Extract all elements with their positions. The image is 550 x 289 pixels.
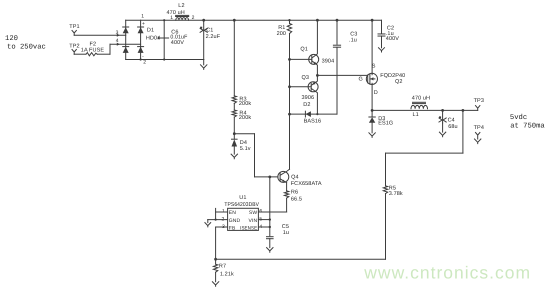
svg-text:G: G <box>359 77 363 83</box>
node drain output junction <box>371 109 374 112</box>
ground under TP4 <box>475 139 481 144</box>
capacitor C5 plates <box>267 236 274 238</box>
test point TP1 probe <box>72 30 76 35</box>
node D2 anode junction <box>288 113 291 116</box>
transistor Q1 circle <box>309 54 319 64</box>
svg-text:200: 200 <box>277 31 286 37</box>
wire R1 down to D2 row <box>289 34 291 115</box>
bridge D1 left column wire <box>125 20 127 59</box>
wire EN to GND tie <box>215 208 217 219</box>
wire D2 row down to Q4 collector <box>289 114 291 169</box>
node feedback junction <box>462 109 465 112</box>
bridge pin 4 arrow <box>117 43 120 46</box>
wire feedback bottom row <box>216 258 386 260</box>
capacitor C1 wire <box>203 20 205 59</box>
wire to bridge pin4 <box>110 43 141 45</box>
ic U1 body <box>228 208 259 230</box>
transistor Q1 emitter arrow <box>314 62 317 65</box>
svg-text:2: 2 <box>143 59 146 65</box>
svg-text:C4: C4 <box>448 117 455 123</box>
ground at U1 GND <box>207 220 209 223</box>
wire feedback down <box>462 110 464 153</box>
node VIN junction <box>269 218 271 220</box>
node C4 junction <box>441 109 444 112</box>
svg-text:BAS16: BAS16 <box>304 119 322 125</box>
zener D4 <box>232 138 238 140</box>
mosfet Q2 drain wire <box>371 85 373 111</box>
capacitor C2 plates <box>378 33 385 35</box>
node ISENSE junction <box>269 226 271 228</box>
svg-text:6: 6 <box>259 208 262 214</box>
bridge D1 diode right-bottom <box>138 46 144 48</box>
svg-text:Q2: Q2 <box>395 79 403 85</box>
svg-text:3: 3 <box>116 30 119 36</box>
wire corner up <box>109 44 111 54</box>
node Q3 base junction <box>288 85 291 88</box>
svg-text:1: 1 <box>141 14 144 20</box>
resistor R6 <box>284 191 288 198</box>
transistor Q1 base wire <box>290 58 312 60</box>
svg-text:470 uH: 470 uH <box>412 96 430 102</box>
node Q1 base junction <box>288 58 291 61</box>
transistor Q3 circle <box>308 82 318 92</box>
svg-text:200k: 200k <box>239 115 251 121</box>
svg-text:Q3: Q3 <box>302 75 310 81</box>
svg-text:FCX658ATA: FCX658ATA <box>291 181 322 187</box>
resistor R3 <box>232 96 236 104</box>
resistor R7 <box>213 264 217 272</box>
svg-text:D4: D4 <box>240 140 247 146</box>
capacitor C3 plates <box>333 44 340 46</box>
wire top rail to R1 <box>289 20 291 23</box>
transistor Q4 collector <box>280 169 289 175</box>
svg-text:TP2: TP2 <box>69 43 79 49</box>
transistor Q3 base wire <box>290 86 312 88</box>
transistor Q3 collector <box>311 88 317 114</box>
bridge D1 right column wire <box>140 20 142 59</box>
svg-text:400V: 400V <box>386 36 399 42</box>
svg-text:1: 1 <box>222 208 225 214</box>
diode D2 BAS16 <box>304 111 306 117</box>
capacitor C3 lower wire <box>336 47 338 114</box>
svg-text:R7: R7 <box>219 264 226 270</box>
svg-text:1A FUSE: 1A FUSE <box>81 47 105 53</box>
svg-text:4: 4 <box>116 38 119 44</box>
svg-text:3.78k: 3.78k <box>389 191 403 197</box>
wire feedback left <box>386 152 463 154</box>
wire R3 to R4 <box>233 103 235 110</box>
node FB R7 junction <box>214 258 217 261</box>
wire fuse to corner <box>97 53 110 55</box>
wire SW pin lead <box>258 211 286 213</box>
wire GND pin lead <box>208 219 228 221</box>
wire EN pin lead <box>216 211 228 213</box>
svg-text:Q1: Q1 <box>300 46 308 52</box>
wire D2 row <box>290 113 338 115</box>
resistor R4 <box>232 110 236 117</box>
svg-text:L2: L2 <box>178 3 184 9</box>
wire down to base row <box>254 134 256 177</box>
svg-text:C3: C3 <box>350 31 357 37</box>
ground under C4 <box>442 123 444 132</box>
svg-text:D1: D1 <box>147 28 154 34</box>
inductor L1 coil <box>411 105 428 108</box>
node Q4 base VIN junction <box>268 176 271 179</box>
svg-text:5.1v: 5.1v <box>240 146 251 152</box>
svg-text:L1: L1 <box>413 112 419 118</box>
node EN GND junction <box>215 219 217 221</box>
svg-text:D: D <box>374 90 378 96</box>
svg-text:TPS64203DBV: TPS64203DBV <box>224 202 259 208</box>
node R4 D4 junction <box>233 132 236 135</box>
wire drain to D3 <box>371 110 373 117</box>
svg-text:400V: 400V <box>171 40 184 46</box>
node C6 bottom junction <box>163 58 165 60</box>
diode D3 <box>369 116 375 118</box>
svg-text:to 250vac: to 250vac <box>7 44 46 52</box>
svg-text:.1u: .1u <box>349 37 357 43</box>
node Q2 source rail junction <box>371 19 374 22</box>
capacitor C1 symbol <box>200 28 207 32</box>
wire top rail to R3 <box>233 20 235 96</box>
transistor Q4 emitter <box>280 179 287 183</box>
transistor Q4 emitter arrow <box>282 180 285 183</box>
svg-text:ISENSE: ISENSE <box>240 225 258 231</box>
ground under D4 <box>233 147 235 155</box>
svg-text:2.2uF: 2.2uF <box>206 34 221 40</box>
wire D4 node right <box>234 133 254 135</box>
capacitor C3 upper wire <box>336 20 338 44</box>
ground at C1 bottom <box>203 60 205 65</box>
wire ISENSE pin lead <box>258 226 269 228</box>
node bridge minus junction <box>140 58 142 60</box>
svg-text:ES1G: ES1G <box>378 120 393 126</box>
wire top rail <box>126 19 382 21</box>
wire node to R7 <box>215 259 217 264</box>
wire gate drive <box>317 74 366 76</box>
bridge D1 diode left-bottom <box>123 46 129 48</box>
svg-text:1: 1 <box>170 15 173 21</box>
svg-text:SW: SW <box>249 210 257 216</box>
wire output row <box>372 109 478 111</box>
svg-text:TP4: TP4 <box>474 125 484 131</box>
mosfet Q2 source wire <box>371 20 373 73</box>
capacitor C6 wire <box>163 20 165 59</box>
svg-text:TP3: TP3 <box>474 98 484 104</box>
svg-text:1u: 1u <box>283 230 289 236</box>
transistor Q1 collector <box>312 20 318 58</box>
wire FB down <box>215 227 217 259</box>
wire R6 to Q4 emitter <box>286 183 288 191</box>
resistor R1 <box>287 24 291 34</box>
transistor Q3 emitter arrow <box>312 82 315 85</box>
node C3 top junction <box>336 19 339 22</box>
ground under R7 <box>215 272 217 282</box>
bridge pin 3 arrow <box>117 34 120 37</box>
svg-text:120: 120 <box>5 35 18 43</box>
svg-text:2: 2 <box>192 15 195 21</box>
capacitor C6 symbol <box>158 36 160 39</box>
node C1 top junction <box>202 19 205 22</box>
wire FB pin lead <box>216 226 228 228</box>
svg-text:U1: U1 <box>239 195 246 201</box>
node Q1 collector rail junction <box>316 19 319 22</box>
test point TP3 probe <box>476 106 480 111</box>
mosfet Q2 circle <box>366 73 377 84</box>
capacitor C4 symbol <box>439 118 446 122</box>
svg-text:TP1: TP1 <box>69 24 79 30</box>
ground under D3 <box>371 123 373 133</box>
svg-text:EN: EN <box>229 210 236 216</box>
wire R4 to node <box>233 117 235 134</box>
transistor Q4 circle <box>278 171 289 182</box>
svg-text:3906: 3906 <box>302 95 315 101</box>
inductor L2 coil <box>176 18 189 21</box>
wire R5 down <box>385 194 387 260</box>
svg-text:R6: R6 <box>291 190 298 196</box>
svg-text:Q4: Q4 <box>291 175 299 181</box>
wire TP1 to bridge <box>74 34 126 36</box>
svg-text:66.5: 66.5 <box>291 196 302 202</box>
wire Q4 base node down to C5 <box>269 177 271 236</box>
ground under C2 <box>381 36 383 48</box>
mosfet Q2 internal <box>367 75 369 83</box>
svg-text:at 750ma: at 750ma <box>510 123 545 131</box>
svg-text:200k: 200k <box>239 101 251 107</box>
node push-pull output junction <box>316 74 319 77</box>
wire VIN pin lead <box>258 219 269 221</box>
test point TP4 probe <box>476 133 480 140</box>
wire bottom rail <box>126 59 204 61</box>
transistor Q3 base bar <box>310 83 312 90</box>
svg-text:VIN: VIN <box>249 218 258 224</box>
node R1 top junction <box>288 19 290 21</box>
fuse F2 symbol <box>86 53 97 56</box>
wire node to D4 <box>233 134 235 140</box>
resistor R5 <box>383 186 387 194</box>
svg-text:3904: 3904 <box>322 59 335 65</box>
wire SW up to R6 <box>286 198 288 212</box>
ground under C5 <box>269 239 271 248</box>
capacitor C4 wire <box>442 110 444 123</box>
svg-text:68u: 68u <box>448 124 457 130</box>
svg-text:S: S <box>372 63 376 69</box>
transistor Q1 emitter <box>312 61 318 76</box>
transistor Q4 base bar <box>279 173 281 181</box>
transistor Q1 base bar <box>311 56 313 63</box>
node Q3 collector junction <box>316 113 318 115</box>
bridge D1 diode right-top <box>138 26 144 28</box>
transistor Q3 emitter <box>311 75 317 85</box>
svg-text:1.21k: 1.21k <box>220 272 234 278</box>
wire to R5 <box>385 153 387 186</box>
svg-text:5vdc: 5vdc <box>510 113 527 122</box>
test point TP2 probe <box>72 49 76 54</box>
svg-text:www.cntronics.com: www.cntronics.com <box>363 263 531 283</box>
bridge D1 diode left-top <box>123 26 129 28</box>
svg-text:+: + <box>142 21 145 27</box>
wire to Q4 base <box>255 176 278 178</box>
wire rail corner to C2 <box>381 20 383 33</box>
svg-text:GND: GND <box>229 218 241 224</box>
wire TP2 to fuse <box>74 53 86 55</box>
svg-text:C1: C1 <box>206 27 213 33</box>
svg-text:D2: D2 <box>303 102 310 108</box>
node C6 top junction <box>163 19 165 21</box>
node R3 top junction <box>233 19 236 22</box>
svg-text:FB: FB <box>229 225 236 231</box>
